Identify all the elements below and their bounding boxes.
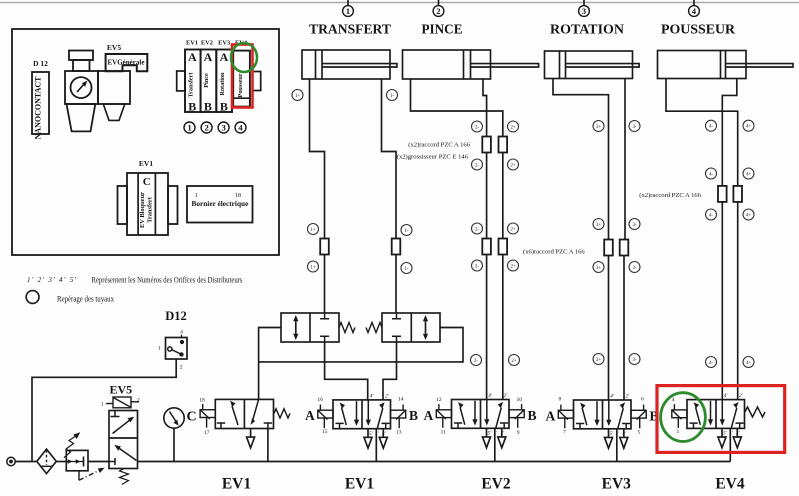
circled number 3 above ROTATION <box>579 6 590 17</box>
tag 1- cylinder right <box>387 90 398 101</box>
bornier electrique box <box>187 186 253 223</box>
nanocontact D12 body <box>32 72 49 134</box>
EV1 bloqueur left tab <box>118 186 128 224</box>
svg-text:3+: 3+ <box>596 266 601 271</box>
svg-text:4: 4 <box>672 397 675 403</box>
svg-text:8: 8 <box>559 397 562 403</box>
pressure switch D12 <box>166 335 188 359</box>
svg-text:EV1: EV1 <box>222 476 251 493</box>
EV2 solenoid B <box>509 404 524 428</box>
svg-text:3: 3 <box>221 123 225 133</box>
EV1 bloqueur solenoid <box>200 404 215 428</box>
green highlight circle on manifold EV4 top <box>231 43 257 72</box>
red highlight rectangle on manifold EV4 column <box>232 45 253 108</box>
svg-text:9: 9 <box>517 430 520 436</box>
circled number 2 above PINCE <box>433 6 444 17</box>
tag 2- c <box>472 223 483 234</box>
svg-text:3+: 3+ <box>596 223 601 228</box>
FRL gauge dial <box>71 77 92 98</box>
svg-text:4-: 4- <box>709 125 713 130</box>
svg-text:2-: 2- <box>475 125 479 130</box>
tag 3+ b <box>593 219 604 230</box>
tag 1- lower <box>401 263 412 274</box>
svg-text:TRANSFERT: TRANSFERT <box>309 22 391 37</box>
svg-text:2-: 2- <box>475 264 479 269</box>
svg-text:ROTATION: ROTATION <box>550 22 624 37</box>
EV2 exhaust 5' <box>483 428 491 447</box>
valve EV2 5/2 <box>452 400 510 429</box>
tag 4+ a <box>743 120 754 131</box>
wire left valve side port <box>259 328 281 400</box>
svg-text:Rotation: Rotation <box>219 72 226 96</box>
wire pousseur right port to 4- line <box>722 79 737 401</box>
port labels EV2 <box>488 392 509 437</box>
svg-text:3+: 3+ <box>596 125 601 130</box>
svg-text:NANOCONTACT: NANOCONTACT <box>34 76 43 140</box>
raccord on pousseur 4- line <box>718 186 727 202</box>
raccord on pousseur 4+ line <box>733 186 742 202</box>
tag 4- d <box>706 357 717 368</box>
wire pince right port to 2- line <box>483 79 487 400</box>
svg-text:B: B <box>204 100 212 114</box>
raccord on transfert 1+ line <box>320 239 329 255</box>
svg-text:C: C <box>143 176 151 188</box>
svg-text:17: 17 <box>204 430 210 436</box>
svg-text:3-: 3- <box>633 266 637 271</box>
svg-text:1: 1 <box>101 402 104 408</box>
wire left valve bottom to EV1 4' <box>325 342 368 400</box>
air source <box>7 457 15 465</box>
EV3 exhaust 5' <box>605 429 613 448</box>
svg-text:C: C <box>187 410 197 425</box>
svg-text:2+: 2+ <box>510 125 515 130</box>
svg-text:2-: 2- <box>475 227 479 232</box>
svg-text:(x2)grossisseur PZC E 146: (x2)grossisseur PZC E 146 <box>397 154 469 161</box>
EV4 solenoid <box>672 404 687 428</box>
svg-text:Pousseur: Pousseur <box>237 73 244 97</box>
tag 4- a <box>706 120 717 131</box>
FRL unit top cap <box>69 51 93 61</box>
svg-text:4+: 4+ <box>746 125 751 130</box>
EVGenerale box <box>106 54 148 71</box>
manifold island column EV1 <box>185 50 201 113</box>
svg-text:2: 2 <box>204 123 208 133</box>
tag 3- c <box>629 262 640 273</box>
svg-text:EV5: EV5 <box>107 43 121 52</box>
svg-text:EV Bloqueur: EV Bloqueur <box>139 192 146 228</box>
EV4 spring <box>745 407 765 417</box>
svg-text:10: 10 <box>517 397 523 403</box>
svg-text:EV5: EV5 <box>110 383 133 397</box>
svg-text:4+: 4+ <box>746 172 751 177</box>
svg-text:A: A <box>424 408 434 423</box>
wire stub above circled 3 <box>583 0 585 6</box>
svg-text:4+: 4+ <box>746 361 751 366</box>
gauge C stem <box>173 428 175 461</box>
tag 1+ lower <box>308 261 319 272</box>
scan border line top <box>0 2 799 4</box>
EV1 wire 1' to supply <box>375 429 377 462</box>
svg-text:Représentent les Numéros des O: Représentent les Numéros des Orifices de… <box>92 276 243 285</box>
EV3 solenoid A <box>558 405 573 429</box>
cylinder TRANSFERT <box>302 50 397 79</box>
lubricator body <box>98 71 130 104</box>
svg-text:14: 14 <box>398 397 404 403</box>
svg-text:Repérage des tuyaux: Repérage des tuyaux <box>57 295 114 304</box>
svg-text:15: 15 <box>322 429 328 435</box>
wire transfert head-end port down <box>382 79 397 313</box>
EV5 return spring <box>120 469 129 485</box>
wire pince left port to 2+ line <box>411 79 503 400</box>
EV1 bloqueur exhaust <box>247 429 255 448</box>
valve EV1 bloqueur 3/2 <box>215 399 273 428</box>
svg-text:3: 3 <box>582 7 586 16</box>
svg-text:13: 13 <box>396 430 402 436</box>
wire rotation left port to 3+ line <box>553 79 609 401</box>
tag 1+ upper <box>308 224 319 235</box>
svg-text:2+: 2+ <box>511 359 516 364</box>
tag 2- b <box>472 159 483 170</box>
lubricator funnel <box>103 104 125 120</box>
EV3 exhaust 3' <box>620 429 628 448</box>
FRL unit main body <box>65 71 98 104</box>
tag 1+ cylinder left <box>292 90 303 101</box>
svg-text:POUSSEUR: POUSSEUR <box>661 22 735 37</box>
blocking valve left (transfert rod side) <box>281 313 339 342</box>
raccord on transfert 1- line <box>392 239 401 255</box>
svg-text:1-: 1- <box>405 229 409 234</box>
EV3 wire 1' to supply <box>616 429 618 462</box>
svg-text:EVGénérale: EVGénérale <box>108 59 145 67</box>
valve EV1 5/2 <box>333 400 391 429</box>
svg-text:1: 1 <box>158 346 161 352</box>
gauge C <box>164 408 184 428</box>
svg-text:B: B <box>188 100 196 114</box>
regulator adjusting spring <box>64 436 77 458</box>
svg-text:1: 1 <box>346 7 350 16</box>
valve EV4 5/2 spring return <box>687 400 745 429</box>
valve EV5 3/2 <box>109 411 138 469</box>
svg-text:A: A <box>188 50 197 64</box>
tag 2+ e <box>509 355 520 366</box>
tag 2- e <box>471 355 482 366</box>
svg-text:A: A <box>204 50 213 64</box>
tag 1- upper <box>401 225 412 236</box>
svg-text:6: 6 <box>641 397 644 403</box>
tag 3- b <box>629 219 640 230</box>
EV1 solenoid B <box>391 405 406 429</box>
svg-text:D 12: D 12 <box>33 59 48 68</box>
tag 2+ d <box>508 260 519 271</box>
svg-text:A: A <box>220 50 229 64</box>
svg-text:4-: 4- <box>709 172 713 177</box>
svg-text:1+: 1+ <box>310 228 315 233</box>
manifold circled number 2 <box>201 122 212 133</box>
blocking valve right spring <box>366 323 382 333</box>
EV2 exhaust 3' <box>498 428 506 447</box>
svg-text:2: 2 <box>137 398 140 404</box>
svg-text:4-: 4- <box>709 213 713 218</box>
tag 3+ d <box>593 354 604 365</box>
tag 4+ c <box>743 209 754 220</box>
EV1 solenoid A <box>318 405 333 429</box>
svg-text:EV2: EV2 <box>201 40 213 47</box>
svg-text:2+: 2+ <box>510 264 515 269</box>
EV3 solenoid B <box>631 405 646 429</box>
EV2 wire 1' to supply <box>494 428 496 461</box>
svg-text:EV4: EV4 <box>715 476 745 493</box>
filter <box>37 449 57 474</box>
EV1 exhaust 5' <box>364 429 372 448</box>
svg-text:Transfert: Transfert <box>188 72 195 98</box>
raccord on rotation 3- line <box>620 240 629 256</box>
tag 3- d <box>629 354 640 365</box>
cylinder POUSSEUR <box>658 51 794 79</box>
svg-text:3: 3 <box>676 429 679 435</box>
svg-text:EV3: EV3 <box>602 476 632 493</box>
svg-text:4: 4 <box>180 330 183 336</box>
pipe tag circles <box>292 90 754 368</box>
svg-text:(x2)raccord PZC A 166: (x2)raccord PZC A 166 <box>408 142 470 149</box>
tag 3- a <box>629 121 640 132</box>
port labels EV1 <box>369 392 390 437</box>
FRL unit neck <box>73 60 90 71</box>
svg-text:4: 4 <box>238 123 243 133</box>
layout enclosure box <box>12 29 279 255</box>
circled number 4 above POUSSEUR <box>689 6 700 17</box>
svg-text:B: B <box>528 408 537 423</box>
EV4 exhaust 3' <box>733 428 741 447</box>
raccord on rotation 3+ line <box>604 240 613 256</box>
port labels EV4 <box>723 392 744 437</box>
svg-text:1' 2' 3' 4' 5': 1' 2' 3' 4' 5' <box>27 276 77 284</box>
blocking valve right (transfert head side) <box>382 313 440 342</box>
green highlight circle on EV4 solenoid <box>661 393 706 442</box>
svg-text:B: B <box>409 408 418 423</box>
svg-text:(x2)raccord PZC A 166: (x2)raccord PZC A 166 <box>639 192 701 199</box>
tag 2+ a <box>508 121 519 132</box>
svg-text:2: 2 <box>436 7 440 16</box>
FRL gauge needle <box>77 83 85 92</box>
svg-text:2-: 2- <box>474 359 478 364</box>
tag 2- a <box>472 121 483 132</box>
EV2 solenoid A <box>436 404 451 428</box>
manifold left end tab <box>177 71 185 91</box>
manifold circled number 3 <box>218 122 229 133</box>
svg-text:11: 11 <box>441 430 447 436</box>
svg-text:16: 16 <box>317 397 323 403</box>
tag 4+ b <box>743 168 754 179</box>
svg-text:Pince: Pince <box>203 73 210 88</box>
svg-text:2: 2 <box>180 365 183 371</box>
tag 2- d <box>472 260 483 271</box>
EV5 pilot solenoid <box>106 397 139 408</box>
tag 3+ c <box>593 262 604 273</box>
svg-text:12: 12 <box>436 397 442 403</box>
tag 4+ d <box>743 357 754 368</box>
EV1 bloqueur spring <box>274 409 290 418</box>
svg-text:5: 5 <box>638 430 641 436</box>
raccord upper on pince 2- line <box>482 137 491 153</box>
cylinder ROTATION <box>545 51 640 79</box>
svg-text:2+: 2+ <box>510 227 515 232</box>
wire EV1 bloqueur to supply <box>267 429 269 462</box>
EV1 exhaust 3' <box>379 429 387 448</box>
EV1 bloqueur right tab <box>168 186 178 224</box>
svg-text:3-: 3- <box>633 358 637 363</box>
svg-text:7: 7 <box>563 430 566 436</box>
svg-text:A: A <box>546 408 556 423</box>
svg-text:(x6)raccord PZC A 166: (x6)raccord PZC A 166 <box>523 249 585 256</box>
svg-text:4-: 4- <box>709 361 713 366</box>
manifold island column EV3 <box>216 50 232 113</box>
svg-text:3-: 3- <box>633 223 637 228</box>
svg-text:EV3: EV3 <box>218 40 230 47</box>
main supply line <box>15 461 730 463</box>
wire pilot cross line <box>259 328 463 362</box>
manifold island column EV4 <box>233 51 250 107</box>
wire stub above circled 2 <box>438 0 440 6</box>
D12 branch wire <box>32 359 176 462</box>
wire pousseur left port to 4+ line <box>666 79 738 401</box>
valve EV3 5/2 <box>574 400 632 429</box>
svg-text:PINCE: PINCE <box>422 22 463 37</box>
svg-text:1: 1 <box>187 123 191 133</box>
raccord lower on pince 2- line <box>482 239 491 255</box>
svg-text:3-: 3- <box>633 125 637 130</box>
svg-text:2+: 2+ <box>510 163 515 168</box>
svg-text:EV1: EV1 <box>345 476 374 493</box>
svg-text:1+: 1+ <box>295 94 300 99</box>
legend circle <box>26 291 39 304</box>
blocking valve left spring <box>339 323 355 333</box>
tag 3+ a <box>593 121 604 132</box>
svg-text:A: A <box>305 408 315 423</box>
tag 2+ c <box>508 223 519 234</box>
raccord upper on pince 2+ line <box>499 137 508 153</box>
wire right valve bottom to EV1 2' <box>383 342 397 400</box>
svg-text:D12: D12 <box>165 309 187 323</box>
svg-text:1-: 1- <box>405 267 409 272</box>
wire stub above circled 1 <box>347 0 349 6</box>
svg-text:4+: 4+ <box>746 213 751 218</box>
svg-text:EV2: EV2 <box>481 476 511 493</box>
svg-text:B: B <box>220 100 228 114</box>
svg-text:Transfert: Transfert <box>147 196 154 223</box>
wire transfert rod-end port down <box>310 79 325 313</box>
circled number 1 above TRANSFERT <box>343 6 354 17</box>
red highlight rectangle on EV4 <box>657 386 785 453</box>
regulator drain dash-dot <box>78 471 80 481</box>
svg-text:18: 18 <box>199 397 205 403</box>
svg-text:EV1: EV1 <box>186 40 198 47</box>
EV1 bloqueur main box <box>127 173 168 235</box>
wire stub above circled 4 <box>693 0 695 6</box>
tag 4- c <box>706 209 717 220</box>
raccord lower on pince 2+ line <box>499 239 508 255</box>
regulator <box>66 450 88 470</box>
svg-text:2-: 2- <box>475 163 479 168</box>
svg-text:3+: 3+ <box>596 358 601 363</box>
svg-text:EV1: EV1 <box>139 159 153 168</box>
manifold right end tab <box>253 72 261 91</box>
manifold island column EV2 <box>201 50 217 113</box>
tag 2+ b <box>508 159 519 170</box>
svg-text:1+: 1+ <box>310 265 315 270</box>
FRL filter bowl funnel <box>67 104 96 131</box>
svg-text:1-: 1- <box>390 94 394 99</box>
tag 4- b <box>706 168 717 179</box>
svg-text:Bornier électrique: Bornier électrique <box>192 199 250 208</box>
cylinder PINCE <box>403 50 539 79</box>
EV4 exhaust 5' <box>718 428 726 447</box>
EV4 wire 1' to supply <box>729 428 731 461</box>
manifold circled number 4 <box>235 122 246 133</box>
manifold circled number 1 <box>184 122 195 133</box>
port labels EV3 <box>610 393 631 438</box>
wire rotation right port 3- line <box>624 79 625 401</box>
